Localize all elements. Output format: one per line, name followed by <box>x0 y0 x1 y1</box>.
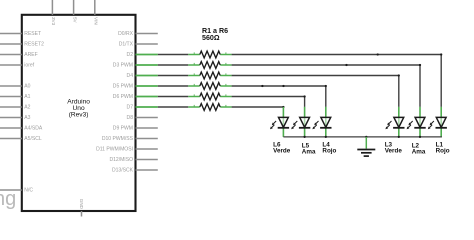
svg-text:D7: D7 <box>127 105 134 111</box>
svg-text:Rojo: Rojo <box>436 148 450 155</box>
svg-text:5V: 5V <box>72 17 77 24</box>
svg-text:Verde: Verde <box>273 148 291 155</box>
svg-text:3V3: 3V3 <box>51 17 56 26</box>
svg-text:RESET: RESET <box>24 31 41 37</box>
svg-text:A4/SDA: A4/SDA <box>24 126 43 132</box>
svg-text:D12/MISO: D12/MISO <box>109 157 133 163</box>
svg-text:D2: D2 <box>127 52 134 58</box>
svg-text:D1/TX: D1/TX <box>119 42 134 48</box>
svg-text:Ama: Ama <box>302 149 316 156</box>
svg-text:Verde: Verde <box>385 148 403 155</box>
svg-text:D13/SCK: D13/SCK <box>112 168 134 174</box>
svg-text:Rojo: Rojo <box>322 148 336 155</box>
svg-text:D10 PWM/SS: D10 PWM/SS <box>102 136 134 142</box>
svg-text:VIN: VIN <box>94 17 99 25</box>
svg-text:Ama: Ama <box>412 149 426 156</box>
svg-text:A0: A0 <box>24 84 30 90</box>
svg-text:560Ω: 560Ω <box>202 34 220 42</box>
svg-text:A3: A3 <box>24 115 30 121</box>
svg-text:A1: A1 <box>24 94 30 100</box>
svg-text:GND: GND <box>79 199 84 210</box>
svg-text:D3 PWM: D3 PWM <box>113 63 133 69</box>
svg-text:D8: D8 <box>127 115 134 121</box>
svg-text:AREF: AREF <box>24 52 37 58</box>
svg-text:D0/RX: D0/RX <box>118 31 133 37</box>
svg-text:D6 PWM: D6 PWM <box>113 94 133 100</box>
svg-text:D5 PWM: D5 PWM <box>113 84 133 90</box>
svg-text:fritzing: fritzing <box>0 188 16 210</box>
svg-text:D11 PWM/MOSI: D11 PWM/MOSI <box>96 147 133 153</box>
svg-text:A5/SCL: A5/SCL <box>24 136 42 142</box>
svg-text:D4: D4 <box>127 73 134 79</box>
svg-text:ioref: ioref <box>24 63 34 69</box>
svg-text:N/C: N/C <box>24 188 33 194</box>
svg-text:D9 PWM: D9 PWM <box>113 126 133 132</box>
svg-text:A2: A2 <box>24 105 30 111</box>
svg-text:RESET2: RESET2 <box>24 42 44 48</box>
svg-text:(Rev3): (Rev3) <box>69 111 89 118</box>
